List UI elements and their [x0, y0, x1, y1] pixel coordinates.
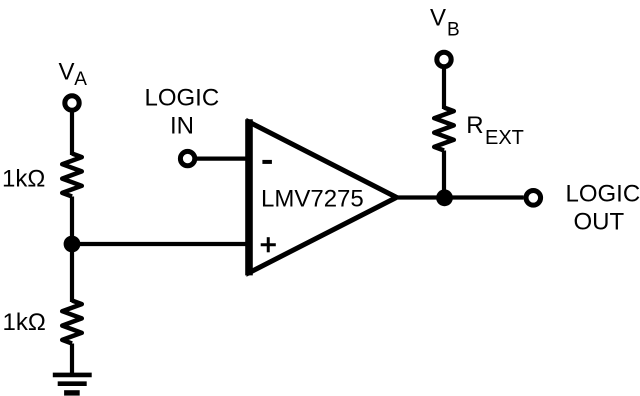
svg-text:V: V — [59, 59, 75, 86]
wire LOGIC IN to op-amp - input — [197, 157, 250, 161]
terminal LOGIC OUT — [526, 191, 541, 206]
terminal LOGIC IN — [180, 151, 194, 165]
svg-text:B: B — [447, 19, 460, 40]
svg-text:IN: IN — [170, 112, 194, 139]
wire R2 to ground — [70, 344, 74, 376]
wire REXT to output node — [442, 151, 446, 199]
svg-text:1kΩ: 1kΩ — [3, 309, 46, 336]
label VA — [59, 59, 88, 91]
svg-text:LMV7275: LMV7275 — [261, 186, 364, 213]
label VB — [430, 5, 460, 41]
wire R1 to node A and node A to R2 — [70, 197, 74, 303]
label LOGIC OUT — [566, 181, 640, 236]
svg-text:A: A — [74, 69, 87, 90]
node A junction dot — [64, 236, 81, 253]
op-amp U1 LMV7275 comparator — [249, 119, 397, 275]
resistor R1 — [62, 154, 82, 197]
ground — [53, 375, 92, 393]
terminal VB — [437, 52, 451, 66]
wire node A to op-amp + input — [72, 242, 250, 246]
terminal VA — [65, 96, 79, 110]
wire op-amp output to LOGIC OUT — [398, 195, 524, 199]
label LOGIC IN — [145, 85, 220, 140]
svg-text:EXT: EXT — [485, 127, 524, 149]
label REXT — [466, 112, 524, 149]
op-amp minus sign (pin IN-) — [262, 160, 272, 164]
op-amp plus sign (pin IN+) — [261, 237, 276, 252]
wire VA to R1 — [70, 112, 74, 155]
svg-text:LOGIC: LOGIC — [566, 181, 640, 208]
resistor R2 — [62, 301, 82, 344]
svg-text:V: V — [430, 5, 446, 32]
svg-text:LOGIC: LOGIC — [145, 85, 220, 112]
svg-text:1kΩ: 1kΩ — [2, 165, 45, 192]
wire VB to REXT — [442, 69, 446, 109]
svg-text:R: R — [466, 112, 483, 139]
node B junction dot (output node) — [436, 189, 453, 206]
svg-text:OUT: OUT — [574, 209, 625, 236]
resistor REXT — [434, 108, 454, 151]
